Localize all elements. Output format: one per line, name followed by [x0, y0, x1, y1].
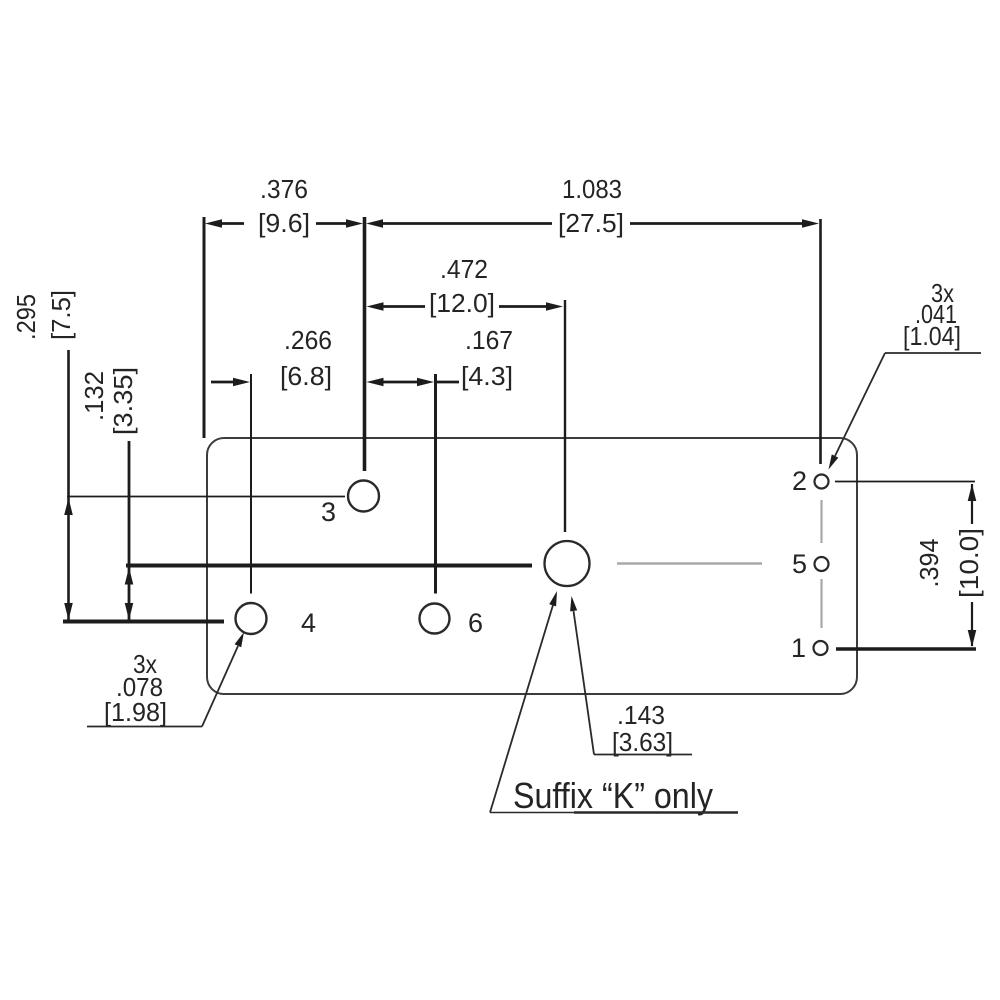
dimension .295 [7.5] vertical	[67, 350, 70, 620]
svg-text:[6.8]: [6.8]	[280, 361, 332, 391]
svg-text:4: 4	[301, 608, 316, 638]
svg-text:.295: .295	[11, 294, 41, 340]
dimension .132 [3.35] vertical	[128, 441, 131, 620]
dimension .266 [6.8]	[211, 381, 233, 384]
dimension .167 [4.3]	[384, 381, 460, 384]
dimension .472 [12.0]	[384, 305, 547, 308]
hole 3	[348, 481, 379, 512]
extension line hole 5 (x=565)	[564, 300, 566, 532]
svg-text:[1.04]: [1.04]	[903, 321, 961, 351]
svg-text:[1.98]: [1.98]	[104, 697, 167, 727]
svg-text:[9.6]: [9.6]	[258, 208, 310, 238]
centerline hole 4 row	[63, 620, 224, 624]
centerline hole 5 row	[126, 564, 532, 568]
centerline hole 3 row	[67, 496, 345, 498]
hole 6	[420, 604, 450, 634]
svg-text:.167: .167	[465, 325, 513, 355]
svg-text:5: 5	[792, 549, 807, 579]
dimension 1.083 [27.5]	[383, 222, 802, 225]
svg-text:1.083: 1.083	[562, 174, 622, 204]
gray dashed connector pins 2-5-1	[820, 500, 822, 628]
svg-text:[27.5]: [27.5]	[558, 208, 624, 238]
extension line hole 3 (x=364.5)	[363, 217, 367, 471]
hole 4	[236, 603, 267, 634]
pin 2 hole	[815, 475, 829, 489]
svg-text:[12.0]: [12.0]	[429, 288, 495, 318]
svg-text:[4.3]: [4.3]	[461, 361, 513, 391]
centerline pin 1 row	[836, 647, 976, 651]
extension line hole 4 (x=251)	[250, 374, 252, 594]
leader to hole 5 left	[490, 812, 574, 814]
extension line left (x=204)	[203, 217, 206, 438]
relay body outline	[207, 438, 857, 694]
svg-text:.143: .143	[617, 700, 665, 730]
gray centerline from hole 5	[617, 562, 762, 564]
svg-text:3: 3	[321, 497, 336, 527]
extension line right (x=820.5)	[819, 219, 822, 464]
svg-text:2: 2	[792, 466, 807, 496]
centerline pin 2 row	[835, 481, 975, 483]
svg-text:[7.5]: [7.5]	[46, 290, 76, 340]
svg-text:.472: .472	[440, 254, 488, 284]
leader to hole 4	[87, 726, 202, 728]
hole 5 large (suffix K)	[545, 541, 590, 586]
svg-text:Suffix “K” only: Suffix “K” only	[513, 775, 713, 816]
svg-text:6: 6	[468, 608, 483, 638]
extension line hole 6 (x=435.5)	[434, 374, 437, 594]
pin 5 hole	[815, 557, 829, 571]
leader to pin 2 hole	[885, 352, 981, 354]
dimension .376 [9.6]	[222, 222, 346, 225]
svg-text:.266: .266	[284, 325, 332, 355]
svg-text:[10.0]: [10.0]	[954, 528, 984, 598]
svg-text:.376: .376	[260, 174, 308, 204]
svg-text:[3.35]: [3.35]	[108, 367, 138, 435]
svg-text:.132: .132	[79, 371, 109, 421]
pin 1 hole	[814, 641, 828, 655]
svg-text:1: 1	[791, 633, 806, 663]
svg-text:[3.63]: [3.63]	[612, 727, 673, 757]
svg-text:.394: .394	[914, 539, 944, 588]
dimension .394 [10.0] vertical right	[971, 484, 973, 646]
leader to hole 5	[594, 754, 692, 756]
